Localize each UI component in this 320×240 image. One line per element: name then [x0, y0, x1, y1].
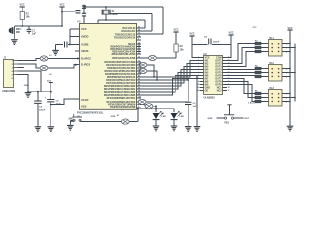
svg-text:VCC: VCC — [59, 4, 64, 7]
svg-text:64: 64 — [138, 29, 140, 32]
svg-text:VCC: VCC — [228, 32, 233, 35]
svg-text:6: 6 — [286, 68, 287, 70]
svg-text:2: 2 — [198, 60, 199, 62]
svg-text:AVDD: AVDD — [81, 34, 88, 38]
svg-text:99: 99 — [138, 94, 140, 96]
svg-text:VCAP: VCAP — [81, 98, 89, 102]
svg-text:4: 4 — [286, 100, 287, 103]
svg-text:28: 28 — [228, 57, 230, 59]
svg-text:VUSB: VUSB — [81, 42, 89, 46]
svg-text:24: 24 — [228, 68, 230, 71]
svg-text:ULN2803: ULN2803 — [204, 95, 216, 99]
svg-text:D+/RG2: D+/RG2 — [81, 56, 91, 60]
svg-text:VCC: VCC — [287, 27, 292, 30]
svg-text:27: 27 — [228, 60, 230, 62]
svg-text:20: 20 — [228, 81, 230, 83]
svg-text:RL3: RL3 — [270, 88, 275, 90]
svg-text:VCC: VCC — [253, 27, 258, 29]
svg-text:94: 94 — [138, 87, 140, 90]
svg-text:RB3/AN3/C2IN+/CN5: RB3/AN3/C2IN+/CN5 — [112, 53, 136, 56]
svg-text:9: 9 — [198, 81, 199, 83]
svg-text:VCC: VCC — [173, 29, 178, 32]
svg-text:VCC: VCC — [189, 33, 194, 36]
svg-text:10k: 10k — [180, 48, 185, 51]
svg-text:100: 100 — [138, 97, 141, 99]
svg-text:22: 22 — [228, 75, 230, 77]
svg-text:RST: RST — [245, 118, 250, 120]
svg-text:74: 74 — [138, 35, 140, 38]
svg-text:23: 23 — [228, 72, 230, 74]
svg-text:2: 2 — [261, 72, 262, 74]
svg-text:10k: 10k — [26, 16, 31, 19]
svg-text:77: 77 — [138, 67, 140, 69]
svg-text:26: 26 — [228, 63, 230, 65]
svg-text:10: 10 — [197, 84, 199, 86]
svg-text:MIC: MIC — [16, 32, 21, 34]
svg-text:VBUS: VBUS — [81, 49, 89, 53]
svg-text:17: 17 — [228, 90, 230, 92]
svg-text:NC2: NC2 — [217, 90, 222, 93]
svg-text:18: 18 — [228, 87, 230, 89]
svg-text:21: 21 — [138, 53, 140, 55]
svg-text:LED: LED — [180, 116, 185, 118]
svg-text:1.8mm: 1.8mm — [248, 103, 255, 105]
svg-text:5: 5 — [286, 47, 287, 49]
svg-text:RB4/AN4/C1IN-/CN6: RB4/AN4/C1IN-/CN6 — [112, 57, 136, 60]
svg-text:4: 4 — [198, 65, 199, 68]
svg-text:83: 83 — [138, 79, 140, 81]
svg-text:5: 5 — [286, 72, 287, 74]
svg-text:81: 81 — [138, 73, 140, 75]
svg-text:33: 33 — [138, 57, 140, 59]
svg-text:7: 7 — [138, 39, 139, 41]
svg-text:76: 76 — [138, 64, 140, 66]
svg-text:1nF: 1nF — [193, 106, 198, 108]
svg-text:73: 73 — [138, 33, 140, 35]
svg-text:VCC: VCC — [81, 27, 87, 31]
svg-text:RL2: RL2 — [270, 63, 275, 65]
svg-text:LED: LED — [162, 116, 167, 118]
svg-text:GND: GND — [208, 118, 213, 120]
svg-text:GND: GND — [111, 116, 116, 118]
svg-text:RG6/SCK2/PMA5/CN8: RG6/SCK2/PMA5/CN8 — [110, 106, 136, 109]
svg-text:100nF: 100nF — [39, 110, 46, 112]
svg-text:7: 7 — [198, 75, 199, 77]
svg-text:25: 25 — [228, 66, 230, 68]
svg-text:6: 6 — [286, 93, 287, 95]
svg-text:6: 6 — [286, 43, 287, 45]
svg-text:D-/RG3: D-/RG3 — [81, 62, 91, 66]
svg-text:R6: R6 — [255, 91, 257, 93]
svg-text:VCC: VCC — [19, 4, 24, 7]
svg-text:R3: R3 — [255, 41, 257, 43]
svg-text:8MHz: 8MHz — [112, 13, 119, 16]
svg-text:PB1: PB1 — [225, 123, 230, 125]
svg-text:4: 4 — [286, 50, 287, 53]
svg-text:63: 63 — [138, 27, 140, 29]
svg-text:98: 98 — [138, 91, 140, 93]
svg-text:TDO/SOSCO/RC14: TDO/SOSCO/RC14 — [114, 37, 136, 40]
svg-text:10uF: 10uF — [56, 104, 62, 106]
svg-text:5: 5 — [198, 69, 199, 71]
svg-text:3: 3 — [261, 76, 262, 78]
svg-text:11: 11 — [197, 87, 199, 89]
svg-text:72: 72 — [138, 61, 140, 63]
svg-text:1: 1 — [198, 57, 199, 59]
svg-text:100nF: 100nF — [213, 42, 220, 44]
svg-text:GND: GND — [24, 85, 29, 87]
svg-text:6: 6 — [138, 106, 139, 108]
svg-text:OE: OE — [205, 90, 209, 93]
svg-text:19: 19 — [228, 84, 230, 86]
svg-text:8: 8 — [198, 78, 199, 80]
svg-text:SW1: SW1 — [69, 119, 75, 121]
svg-text:MIC1: MIC1 — [16, 29, 22, 31]
svg-text:12: 12 — [197, 90, 199, 92]
svg-text:4: 4 — [286, 75, 287, 78]
svg-text:3: 3 — [198, 63, 199, 65]
svg-text:USBCONN: USBCONN — [2, 89, 15, 93]
svg-text:21: 21 — [228, 78, 230, 80]
svg-text:84: 84 — [138, 81, 140, 84]
svg-text:VSS: VSS — [81, 104, 87, 108]
svg-text:OSC2/CLKO: OSC2/CLKO — [121, 30, 135, 33]
svg-text:93: 93 — [138, 85, 140, 87]
svg-text:5: 5 — [286, 97, 287, 99]
svg-text:1: 1 — [261, 68, 262, 70]
svg-text:PIC32MX795F512L: PIC32MX795F512L — [77, 110, 104, 114]
svg-text:82: 82 — [138, 76, 140, 78]
svg-text:1uF: 1uF — [32, 34, 37, 36]
svg-text:RL1: RL1 — [270, 38, 275, 40]
svg-text:78: 78 — [138, 70, 140, 72]
svg-text:6: 6 — [198, 72, 199, 74]
svg-text:RF0/CN68/PMD11/ETXD1: RF0/CN68/PMD11/ETXD1 — [107, 97, 136, 100]
